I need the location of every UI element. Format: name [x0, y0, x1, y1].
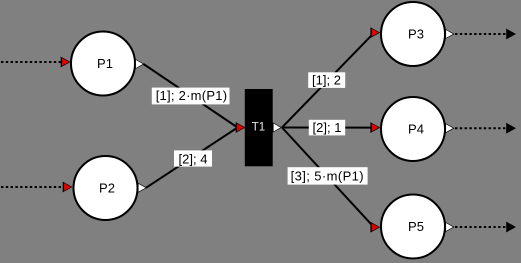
svg-text:[2]; 1: [2]; 1	[313, 120, 342, 135]
svg-text:P1: P1	[97, 56, 113, 71]
arrowhead (white) at T1 output	[272, 122, 282, 133]
arrowhead (red) at P2 input	[63, 182, 73, 193]
arc label "[2]; 4"	[174, 150, 212, 166]
arrowhead (red) at P1 input	[61, 57, 71, 68]
wire: arc T1 to P5	[282, 128, 372, 226]
wire: dotted output arc from P4	[455, 127, 506, 129]
transition T1	[245, 89, 273, 166]
place P4	[381, 97, 445, 161]
place P2	[74, 156, 138, 220]
wire: arc P2 to T1	[146, 128, 238, 188]
arc label "[1]; 2"	[308, 72, 345, 88]
svg-text:[1]; 2·m(P1): [1]; 2·m(P1)	[156, 88, 228, 103]
wire: dotted input arc into P1	[1, 61, 62, 63]
svg-text:P2: P2	[99, 181, 115, 196]
svg-text:T1: T1	[252, 122, 265, 134]
svg-text:P3: P3	[408, 27, 424, 42]
arrowhead (red) at P5 input	[370, 222, 380, 233]
arrowhead (white) at P5 output	[445, 222, 455, 233]
arc label "[3]; 5·m(P1)"	[288, 167, 368, 184]
arrowhead (white) at P4 output	[445, 123, 455, 134]
svg-text:[3]; 5·m(P1): [3]; 5·m(P1)	[291, 168, 364, 183]
arrowhead (black) at P3 output end	[506, 29, 516, 40]
svg-text:P5: P5	[408, 219, 424, 234]
wire: arc T1 to P4	[282, 127, 372, 129]
wire: dotted output arc from P5	[455, 226, 506, 228]
arrowhead (white) at P3 output	[445, 29, 455, 40]
svg-text:[1]; 2: [1]; 2	[312, 73, 341, 88]
arrowhead (black) at P5 output end	[506, 222, 516, 233]
arc label "[1]; 2·m(P1)"	[152, 88, 230, 105]
place P1	[71, 32, 135, 96]
arrowhead (red) at T1 input	[236, 122, 246, 133]
wire: arc P1 to T1	[144, 64, 238, 128]
wire: dotted output arc from P3	[455, 33, 506, 35]
arrowhead (red) at P3 input	[370, 27, 380, 38]
wire: dotted input arc into P2	[1, 186, 64, 188]
svg-text:[2]; 4: [2]; 4	[179, 152, 208, 167]
arc label "[2]; 1"	[309, 120, 345, 136]
place P5	[381, 195, 445, 259]
place P3	[381, 2, 445, 66]
arrowhead (white) at P1 output	[135, 59, 145, 70]
arrowhead (black) at P4 output end	[506, 123, 516, 134]
arrowhead (red) at P4 input	[370, 122, 380, 133]
svg-text:P4: P4	[408, 122, 424, 137]
arrowhead (white) at P2 output	[137, 182, 147, 193]
wire: arc T1 to P3	[282, 35, 372, 128]
